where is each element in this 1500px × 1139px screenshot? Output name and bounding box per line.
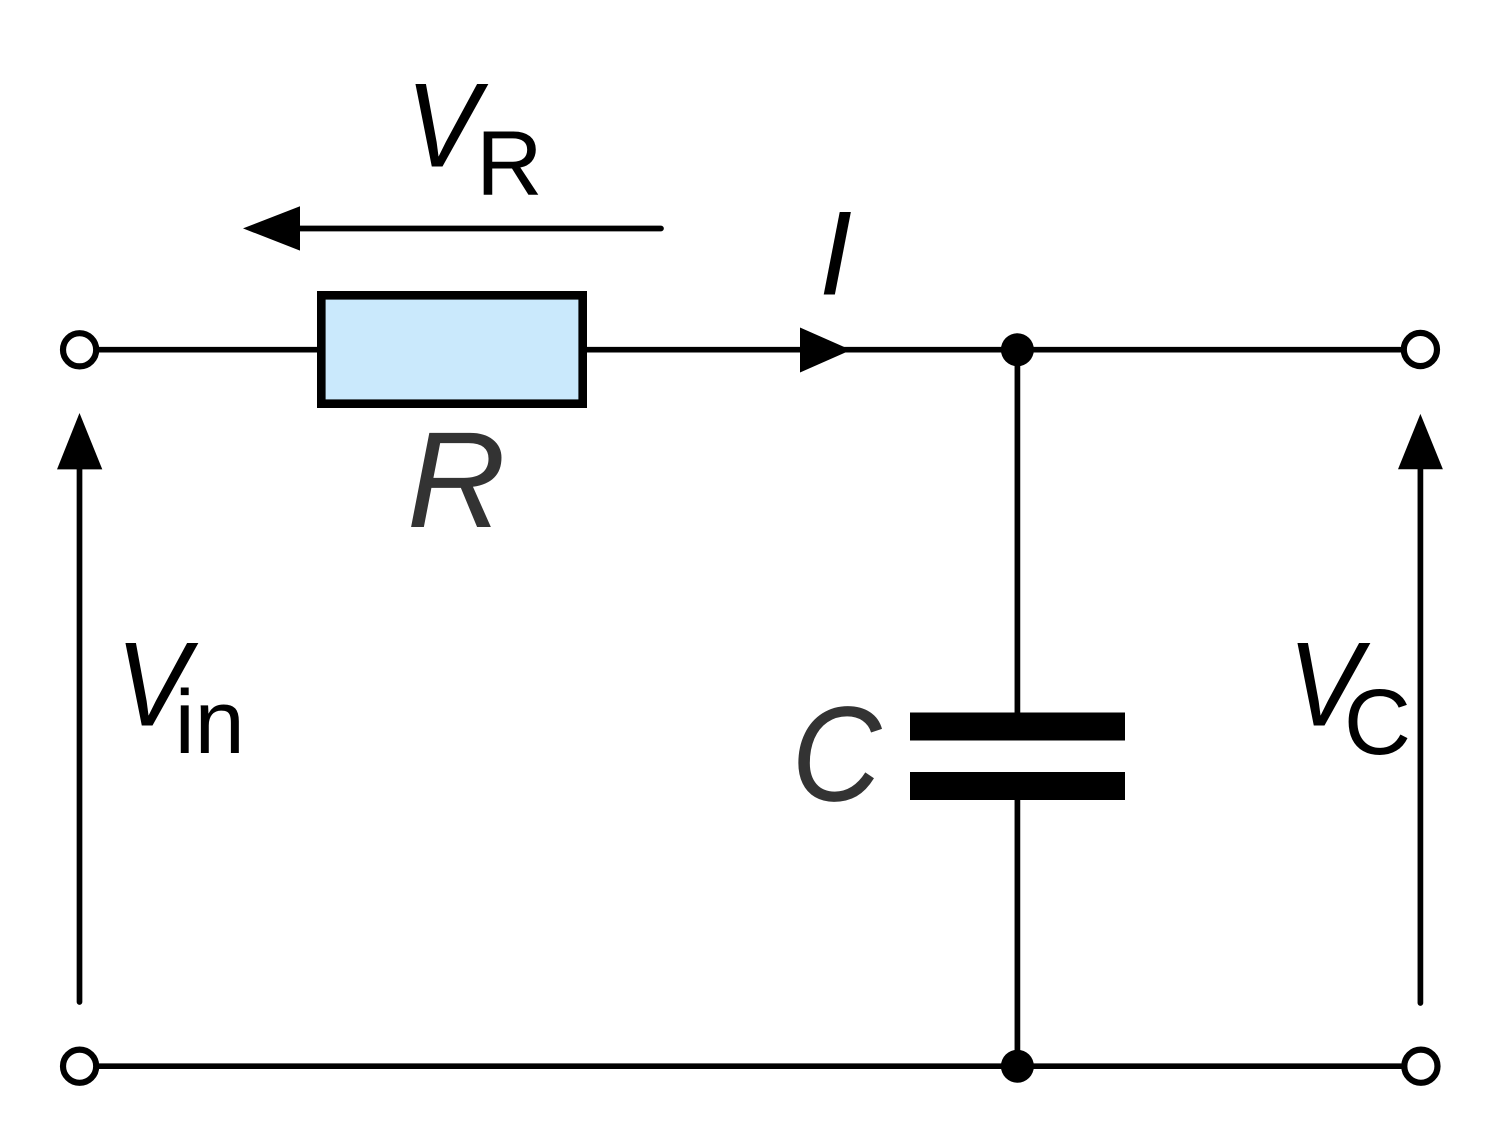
label C (capacitor value) [792,678,883,830]
VC voltage arrowhead [1398,414,1443,469]
wire: bottom rail left [93,1063,1019,1069]
svg-text:C: C [1344,670,1411,774]
wire: junction A to output terminal [1016,347,1405,353]
wire: resistor to junction A [585,347,1019,353]
label Vin: V [116,618,199,751]
svg-text:I: I [819,188,852,321]
node B junction dot (bottom) [1001,1050,1034,1083]
label VC: V [1288,618,1371,751]
svg-text:R: R [407,403,506,556]
svg-text:C: C [792,678,883,830]
wire: bottom rail right [1016,1063,1405,1069]
label VR: V [406,59,489,192]
VR voltage arrowhead [243,206,300,250]
Vin voltage arrowhead [57,413,102,469]
wire: input top stub [93,347,321,353]
svg-text:R: R [476,113,542,215]
node A junction dot (top) [1001,333,1034,366]
svg-text:in: in [175,673,245,773]
resistor R body [321,295,582,403]
wire: capacitor upper branch [1015,348,1021,714]
terminal: input bottom [63,1050,96,1083]
Vin voltage arrow line [77,460,83,1002]
VR voltage arrow line [300,226,661,232]
terminal: output bottom [1404,1050,1437,1083]
capacitor C top plate [910,713,1125,741]
capacitor C bottom plate [910,772,1125,800]
VC voltage arrow line [1418,460,1424,1003]
terminal: output top [1404,333,1437,366]
terminal: input top [63,333,96,366]
wire: capacitor lower branch [1015,799,1021,1067]
current I arrowhead [800,328,851,373]
